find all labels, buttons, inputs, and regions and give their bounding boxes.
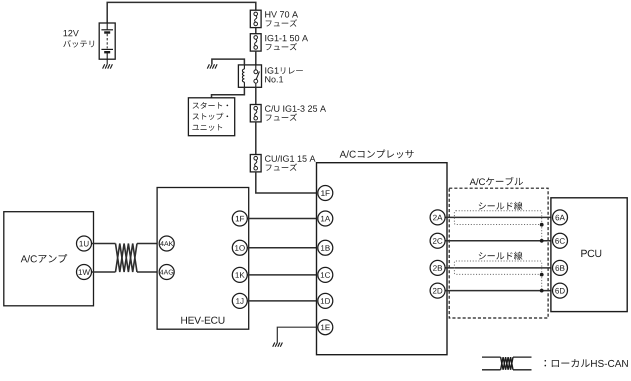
- connector pin 1A (compressor): [318, 211, 333, 226]
- connector pin 1W (A/C amp): [77, 265, 92, 280]
- A/C cable dashed boundary: [449, 177, 548, 318]
- wire 2A to 6A: [445, 216, 552, 218]
- shield (lower pair): [454, 252, 543, 293]
- relay IG1 No.1: [238, 65, 302, 87]
- HEV-ECU box: [157, 188, 249, 330]
- connector pin 1J (HEV-ECU): [232, 293, 247, 308]
- wire compressor 1E to ground: [277, 327, 318, 342]
- PCU box: [551, 198, 627, 312]
- wire 1W to twisted pair: [92, 271, 116, 273]
- ground (battery): [103, 64, 113, 68]
- connector pin 1F (compressor): [318, 186, 333, 201]
- fuse C/U IG1-3 25 A: [250, 105, 326, 122]
- wire HEV-ECU 1O to compressor 1B: [247, 247, 318, 249]
- wire battery positive to HV fuse: [107, 2, 256, 23]
- connector pin 1O (HEV-ECU): [232, 240, 247, 255]
- A/C amp box: [4, 212, 94, 306]
- connector pin 1C (compressor): [318, 267, 333, 282]
- wire 2D to 6D: [445, 290, 552, 292]
- connector pin 1B (compressor): [318, 240, 333, 255]
- ground (compressor 1E): [273, 343, 283, 347]
- connector pin 1E (compressor): [318, 320, 333, 335]
- wire HV fuse to IG1-1 fuse: [255, 28, 257, 34]
- wire HEV-ECU 1J to compressor 1D: [247, 300, 318, 302]
- connector pin 2D (compressor): [430, 283, 445, 298]
- wire HEV-ECU 1F to compressor 1A: [247, 218, 318, 220]
- connector pin 4AG (HEV-ECU): [159, 265, 174, 280]
- connector pin 2C (compressor): [430, 233, 445, 248]
- fuse IG1-1 50 A: [250, 34, 308, 51]
- connector pin 6B (PCU): [553, 260, 568, 275]
- connector pin 2B (compressor): [430, 260, 445, 275]
- wire HEV-ECU 1K to compressor 1C: [247, 274, 318, 276]
- wire IG1-1 fuse to relay contact: [255, 51, 257, 65]
- twisted pair line A: [116, 244, 138, 273]
- wire relay coil to start-stop unit: [212, 87, 245, 98]
- wire twisted pair to 4AG: [137, 271, 159, 273]
- A/C compressor box: [317, 150, 448, 355]
- wire battery negative to ground: [106, 59, 108, 64]
- battery 12V: [63, 23, 115, 59]
- connector pin 1F (HEV-ECU): [232, 211, 247, 226]
- fuse CU/IG1 15 A: [250, 155, 315, 172]
- start-stop unit: [188, 98, 234, 136]
- legend: local HS-CAN twisted pair symbol: [482, 357, 628, 370]
- wire 2C to 6C: [445, 240, 552, 242]
- connector pin 2A (compressor): [430, 210, 445, 225]
- connector pin 1D (compressor): [318, 293, 333, 308]
- connector pin 6A (PCU): [553, 210, 568, 225]
- connector pin 6C (PCU): [553, 233, 568, 248]
- connector pin 1U (A/C amp): [77, 236, 92, 251]
- fuse HV 70 A: [250, 10, 298, 27]
- wire 1U to twisted pair: [92, 243, 116, 245]
- wire relay coil to ground: [212, 59, 245, 65]
- wire twisted pair to 4AK: [137, 243, 159, 245]
- wire C/U IG1-3 fuse to CU/IG1 fuse: [255, 122, 257, 155]
- twisted pair line B: [116, 244, 138, 273]
- wire CU/IG1 fuse to compressor 1F: [256, 172, 318, 193]
- connector pin 6D (PCU): [553, 283, 568, 298]
- wire relay to C/U IG1-3 fuse: [255, 87, 257, 104]
- wire 2B to 6B: [445, 267, 552, 269]
- ground (relay coil): [207, 64, 217, 68]
- connector pin 1K (HEV-ECU): [232, 267, 247, 282]
- connector pin 4AK (HEV-ECU): [159, 236, 174, 251]
- shield (upper pair): [454, 202, 543, 243]
